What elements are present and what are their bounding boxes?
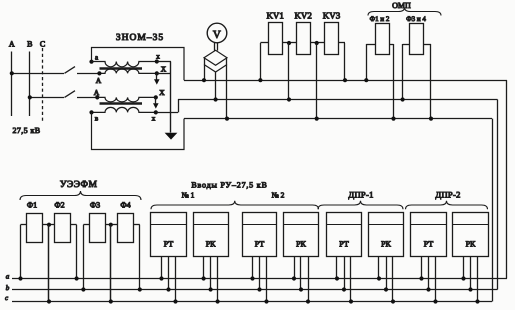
svg-text:РК: РК [466,240,476,249]
svg-text:V: V [213,29,221,41]
svg-text:РК: РК [206,240,216,249]
svg-text:Ф4: Ф4 [120,201,130,210]
svg-text:X: X [161,65,167,74]
svg-text:c: c [5,294,9,302]
svg-text:27,5 кВ: 27,5 кВ [12,126,40,135]
svg-text:РТ: РТ [424,240,434,249]
svg-text:KV3: KV3 [323,10,341,20]
svg-text:РТ: РТ [164,240,174,249]
svg-text:Ф3: Ф3 [90,201,100,210]
svg-text:Ф3 и 4: Ф3 и 4 [406,15,426,23]
svg-text:Вводы РУ–27,5 кВ: Вводы РУ–27,5 кВ [191,181,267,190]
svg-text:Ф1: Ф1 [27,201,37,210]
svg-text:C: C [40,40,45,49]
svg-text:b: b [6,284,10,292]
svg-text:Ф2: Ф2 [54,201,64,210]
svg-text:РТ: РТ [255,240,265,249]
svg-text:ДПР-1: ДПР-1 [348,190,373,200]
svg-text:Ф1 и 2: Ф1 и 2 [370,15,390,23]
svg-text:x: x [152,115,156,123]
svg-text:ЗНОМ–35: ЗНОМ–35 [116,33,164,43]
svg-text:А: А [96,76,102,85]
svg-text:в: в [95,115,99,123]
svg-text:№ 2: № 2 [272,191,285,200]
svg-text:ДПР-2: ДПР-2 [435,190,460,200]
svg-text:KV1: KV1 [266,10,284,20]
svg-text:РТ: РТ [339,240,349,249]
svg-text:РК: РК [296,240,306,249]
svg-text:УЭЭФМ: УЭЭФМ [60,180,98,190]
svg-text:А: А [94,88,100,97]
svg-text:№ 1: № 1 [182,191,195,200]
svg-text:KV2: KV2 [294,10,312,20]
svg-text:X: X [159,88,165,97]
svg-text:РК: РК [381,240,391,249]
svg-text:A: A [9,40,15,49]
svg-text:B: B [27,40,32,49]
svg-text:ОМП: ОМП [392,1,411,10]
svg-text:a: a [6,273,10,281]
svg-text:x: x [156,53,160,61]
svg-text:a: a [95,54,99,62]
